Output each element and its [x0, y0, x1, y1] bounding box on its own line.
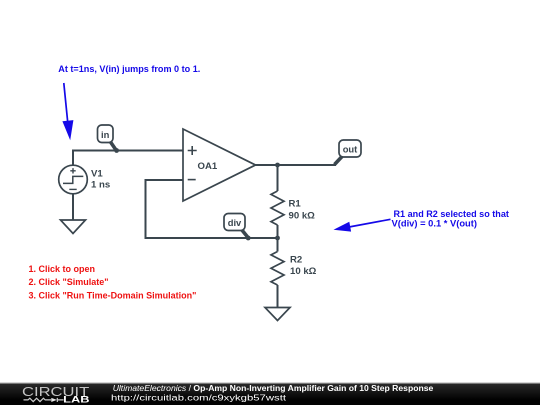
annotation: blue note "R1 and R2 selected so that V(div) = 0.1 * V(out)": [392, 209, 509, 229]
svg-text:At t=1ns, V(in) jumps from 0 t: At t=1ns, V(in) jumps from 0 to 1.: [58, 64, 200, 74]
annotation arrow (blue) pointing to R1/R2 divider: [334, 219, 391, 231]
resistor R1: [271, 191, 284, 225]
svg-text:UltimateElectronics / Op-Amp N: UltimateElectronics / Op-Amp Non-Inverti…: [113, 383, 434, 393]
svg-text:out: out: [343, 144, 358, 155]
wire: R1 bottom stub: [277, 225, 279, 238]
node label out: [335, 140, 362, 165]
node label in: [98, 125, 120, 153]
svg-text:1 ns: 1 ns: [91, 179, 110, 190]
svg-text:1. Click to open: 1. Click to open: [29, 264, 96, 274]
junction at out / R1 top: [275, 163, 280, 168]
annotation: red instructions: [29, 264, 197, 300]
footer bar: [0, 383, 540, 405]
svg-text:R2: R2: [290, 254, 302, 265]
svg-text:R1: R1: [289, 199, 302, 210]
junction at div / R1-R2: [275, 236, 280, 241]
svg-text:LAB: LAB: [63, 395, 90, 405]
voltage source V1 (step source): [59, 165, 88, 194]
wire: R1 top stub: [277, 165, 279, 191]
wire: feedback bottom to node div: [145, 237, 278, 239]
label R1 90 kOhm: [289, 199, 316, 222]
CircuitLab logo: resistor-diode wire and LAB: [24, 398, 64, 402]
wire: feedback left vertical: [145, 179, 147, 238]
svg-text:V1: V1: [91, 168, 103, 179]
svg-text:R1 and R2 selected so that: R1 and R2 selected so that: [394, 209, 509, 219]
wire: V1 bottom to ground: [72, 194, 74, 220]
wire: R2 bottom stub to ground: [277, 285, 279, 308]
wire: op-amp - input: [146, 179, 184, 181]
resistor R2: [271, 252, 284, 286]
svg-text:OA1: OA1: [198, 161, 218, 172]
svg-text:http://circuitlab.com/c9xykgb5: http://circuitlab.com/c9xykgb57wstt: [111, 393, 287, 403]
svg-text:10 kΩ: 10 kΩ: [290, 266, 317, 277]
wire: node in, V1 top to op-amp + input: [73, 151, 183, 166]
ground (below R2): [265, 308, 290, 321]
svg-text:div: div: [228, 217, 242, 228]
svg-text:3. Click "Run Time-Domain Simu: 3. Click "Run Time-Domain Simulation": [29, 290, 197, 300]
op-amp OA1: [183, 129, 256, 201]
label R2 10 kOhm: [290, 254, 317, 277]
svg-text:2. Click "Simulate": 2. Click "Simulate": [29, 277, 109, 287]
wire: op-amp output to node out: [256, 164, 337, 166]
svg-text:90 kΩ: 90 kΩ: [289, 210, 316, 221]
svg-text:V(div) = 0.1 * V(out): V(div) = 0.1 * V(out): [392, 219, 478, 229]
wire: R2 top stub: [277, 238, 279, 252]
ground (below V1): [61, 220, 86, 234]
node label div: [224, 214, 251, 241]
svg-text:in: in: [101, 129, 110, 140]
label V1 value: [91, 168, 110, 190]
annotation arrow (blue) pointing to node in wire: [62, 83, 73, 140]
